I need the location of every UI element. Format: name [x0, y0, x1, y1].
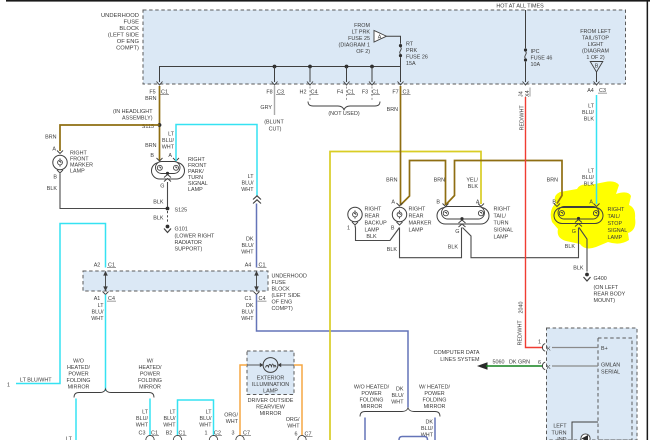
- svg-text:B+: B+: [601, 346, 608, 352]
- svg-text:LAMP: LAMP: [608, 235, 623, 241]
- svg-text:WHT: WHT: [163, 423, 176, 429]
- svg-text:F8: F8: [266, 90, 272, 96]
- svg-text:FOLDING: FOLDING: [360, 398, 384, 404]
- svg-text:TURN: TURN: [552, 431, 567, 437]
- wire BRN F7/C3 down to rear marker A: [400, 86, 402, 205]
- svg-text:CUT): CUT): [269, 127, 282, 133]
- svg-text:6: 6: [295, 432, 298, 438]
- svg-text:PRK: PRK: [406, 48, 417, 54]
- svg-text:REAR BODY: REAR BODY: [594, 292, 626, 298]
- svg-text:BLK: BLK: [387, 247, 398, 253]
- svg-text:TAIL/STOP: TAIL/STOP: [582, 36, 609, 42]
- svg-text:SUPPORT): SUPPORT): [175, 247, 203, 253]
- IPC FUSE 46 10A: [525, 10, 527, 48]
- svg-text:BLU/: BLU/: [421, 426, 433, 432]
- wire LT BLU/WHT band to brace: [105, 295, 107, 392]
- right rear backup lamp: [348, 207, 362, 221]
- svg-text:BRN: BRN: [45, 135, 56, 141]
- wire triangle A to fuse 26: [387, 36, 401, 44]
- svg-text:F4: F4: [337, 90, 343, 96]
- right rear marker lamp: [397, 203, 403, 206]
- svg-text:1 OF 2): 1 OF 2): [586, 55, 604, 61]
- svg-text:LAMP: LAMP: [263, 389, 278, 395]
- branch W/O heated (slate): [364, 418, 366, 440]
- svg-text:BLU/: BLU/: [200, 416, 212, 422]
- branch W/O heated: wire to bottom: [75, 399, 77, 440]
- svg-text:J4: J4: [519, 91, 525, 97]
- svg-text:B: B: [53, 175, 57, 181]
- svg-text:LT: LT: [206, 410, 213, 416]
- brace split DK BLU/WHT: [360, 408, 440, 417]
- svg-text:A: A: [589, 200, 593, 206]
- ground G400: [585, 273, 589, 277]
- svg-text:WHT: WHT: [241, 187, 254, 193]
- svg-text:BLK: BLK: [153, 216, 164, 222]
- svg-text:LT: LT: [248, 174, 255, 180]
- svg-text:WHT: WHT: [226, 419, 239, 425]
- svg-text:1: 1: [7, 383, 10, 389]
- underhood fuse block box (top): [143, 10, 626, 84]
- svg-text:BLK: BLK: [565, 244, 576, 250]
- svg-text:MIRROR: MIRROR: [424, 404, 446, 410]
- svg-text:A: A: [52, 147, 56, 153]
- svg-text:B: B: [150, 153, 154, 159]
- left turn indicator in module: [572, 422, 598, 440]
- svg-text:LT: LT: [588, 169, 595, 175]
- svg-text:TAIL/: TAIL/: [494, 214, 507, 220]
- svg-text:A: A: [168, 153, 172, 159]
- wire BLK tail/stop G to G400: [579, 228, 587, 272]
- wire BLK S125 to G101 (dashed): [167, 211, 169, 224]
- svg-text:WHT: WHT: [91, 316, 104, 322]
- wire GRY from F8/C3: [274, 86, 276, 115]
- wire RED/WHT from IPC fuse to B+: [526, 97, 544, 348]
- svg-text:FOLDING: FOLDING: [67, 378, 91, 384]
- svg-text:LT: LT: [168, 132, 175, 138]
- svg-text:FUSE: FUSE: [124, 20, 140, 26]
- svg-text:1: 1: [538, 340, 541, 346]
- svg-text:W/: W/: [147, 359, 154, 365]
- svg-text:REAR: REAR: [409, 214, 424, 220]
- svg-text:REARVIEW: REARVIEW: [256, 405, 286, 411]
- svg-text:WHT: WHT: [391, 400, 404, 406]
- svg-text:POWER: POWER: [424, 391, 444, 397]
- svg-text:UNDERHOOD: UNDERHOOD: [101, 13, 139, 19]
- wire BRN loop tail/turn B to tail/stop B: [446, 161, 563, 206]
- branch W/ heated (slate): [434, 418, 436, 440]
- underhood fuse block pass-through band: [83, 271, 268, 291]
- svg-text:ORG/: ORG/: [286, 417, 300, 423]
- svg-text:A2: A2: [94, 263, 101, 269]
- svg-text:RIGHT: RIGHT: [608, 207, 625, 213]
- svg-text:LT BLU/WHT: LT BLU/WHT: [20, 378, 52, 384]
- svg-text:K: K: [547, 347, 551, 353]
- svg-text:G400: G400: [594, 276, 607, 282]
- page right border: [647, 0, 649, 440]
- svg-text:G: G: [455, 229, 459, 235]
- off-page triangle A: [374, 31, 387, 43]
- fuse block bus bar: [160, 67, 401, 83]
- wire BLK tail/turn G right to tail/stop G: [463, 228, 579, 258]
- svg-text:RED/WHT: RED/WHT: [518, 320, 524, 346]
- svg-text:COMPT): COMPT): [116, 46, 139, 52]
- svg-text:BACKUP: BACKUP: [365, 221, 388, 227]
- svg-text:B: B: [552, 200, 556, 206]
- svg-text:WHT: WHT: [162, 145, 175, 151]
- svg-text:SERIAL: SERIAL: [601, 370, 620, 376]
- svg-text:A: A: [378, 34, 382, 40]
- pass-through arrows: [104, 272, 258, 290]
- svg-text:COMPT): COMPT): [272, 306, 293, 312]
- svg-text:LAMP: LAMP: [188, 187, 203, 193]
- svg-text:ORG/: ORG/: [224, 413, 238, 419]
- svg-text:BLU/: BLU/: [242, 181, 254, 187]
- svg-text:RIGHT: RIGHT: [365, 207, 382, 213]
- branch W/ heated: wire to connector C3/C1: [149, 399, 151, 436]
- svg-text:MIRROR: MIRROR: [361, 404, 383, 410]
- svg-text:YEL/: YEL/: [466, 178, 478, 184]
- mirror connector (cut off at bottom): [399, 437, 428, 440]
- svg-text:WHT: WHT: [241, 250, 254, 256]
- svg-text:OF 2): OF 2): [356, 49, 370, 55]
- svg-text:MARKER: MARKER: [409, 221, 432, 227]
- svg-text:DRIVER OUTSIDE: DRIVER OUTSIDE: [248, 398, 294, 404]
- svg-text:BLU/: BLU/: [582, 110, 594, 116]
- svg-text:W/O: W/O: [73, 359, 84, 365]
- svg-text:HEATED/: HEATED/: [139, 365, 162, 371]
- wire LT BLU/WHT park/turn A up and over: [176, 125, 257, 196]
- svg-text:(DIAGRAM: (DIAGRAM: [582, 49, 609, 55]
- wire DK GRN computer data line: [477, 362, 488, 369]
- svg-text:LT: LT: [98, 303, 105, 309]
- wire BLK marker B down and right to tail/turn G: [400, 228, 462, 258]
- svg-text:LAMP: LAMP: [494, 235, 509, 241]
- in-line connector break: [253, 196, 261, 200]
- svg-text:2040: 2040: [519, 302, 525, 314]
- svg-text:FUSE 46: FUSE 46: [531, 56, 553, 62]
- svg-text:MOUNT): MOUNT): [594, 298, 616, 304]
- wire ORG/WHT left: [240, 365, 247, 436]
- svg-text:MIRROR: MIRROR: [68, 385, 90, 391]
- svg-text:LT: LT: [588, 104, 595, 110]
- svg-text:LAMP: LAMP: [365, 228, 380, 234]
- svg-text:(IN HEADLIGHT: (IN HEADLIGHT: [113, 109, 153, 115]
- svg-text:FUSE 25: FUSE 25: [348, 36, 370, 42]
- svg-text:POWER: POWER: [361, 391, 381, 397]
- svg-text:POWER: POWER: [68, 372, 88, 378]
- svg-text:BLK: BLK: [366, 234, 377, 240]
- svg-text:EXTERIOR: EXTERIOR: [257, 376, 285, 382]
- svg-text:FROM: FROM: [354, 23, 370, 29]
- svg-text:DK: DK: [246, 303, 254, 309]
- svg-text:(NOT USED): (NOT USED): [328, 111, 360, 117]
- svg-text:BLU/: BLU/: [242, 310, 254, 316]
- svg-text:OF ENG: OF ENG: [272, 300, 293, 306]
- wire BLK backup to marker B: [355, 226, 400, 241]
- svg-text:GMLAN: GMLAN: [601, 363, 620, 369]
- svg-text:S125: S125: [175, 208, 188, 214]
- wire DK BLU/WHT band over to right and down: [257, 295, 409, 408]
- svg-text:W/ HEATED/: W/ HEATED/: [419, 385, 451, 391]
- svg-text:LT PRK: LT PRK: [352, 30, 371, 36]
- svg-text:BRN: BRN: [386, 178, 397, 184]
- svg-text:TAIL/: TAIL/: [608, 214, 621, 220]
- svg-text:REAR: REAR: [365, 214, 380, 220]
- svg-text:BRN: BRN: [387, 107, 398, 113]
- lamp symbol with arrows: [247, 364, 264, 366]
- svg-text:IPC: IPC: [531, 49, 540, 55]
- svg-text:BRN: BRN: [145, 143, 156, 149]
- jumper loop B2/C1 to 1/C2: [178, 400, 214, 436]
- svg-text:F7: F7: [392, 90, 398, 96]
- svg-text:W/O HEATED/: W/O HEATED/: [354, 385, 390, 391]
- exterior illumination lamp dashed box: [247, 351, 294, 395]
- svg-text:OF ENG: OF ENG: [117, 39, 140, 45]
- svg-text:DK: DK: [246, 237, 254, 243]
- svg-text:FOLDING: FOLDING: [423, 398, 447, 404]
- wire BRN branch to right front marker lamp: [60, 125, 160, 151]
- svg-text:B: B: [595, 64, 599, 70]
- svg-text:WHT: WHT: [241, 316, 254, 322]
- svg-text:RT: RT: [406, 42, 414, 48]
- svg-text:6: 6: [538, 360, 541, 366]
- svg-text:1: 1: [347, 226, 350, 232]
- svg-text:C1: C1: [245, 296, 252, 302]
- svg-text:BLU/: BLU/: [392, 393, 404, 399]
- yellow highlight over right tail/stop lamp: [551, 181, 636, 248]
- ground G101: [166, 225, 170, 229]
- off-page triangle B: [590, 62, 603, 73]
- svg-text:LT: LT: [66, 437, 73, 440]
- svg-text:DK: DK: [426, 420, 434, 426]
- svg-text:H2: H2: [300, 90, 307, 96]
- wire LT BLU/WHT off-page 1 up to A2/C1: [16, 224, 106, 384]
- wire YEL/BLK long vertical and over to tail/turn A: [330, 152, 481, 440]
- svg-text:BRN: BRN: [434, 178, 445, 184]
- svg-text:WHT: WHT: [136, 423, 149, 429]
- svg-text:RIGHT: RIGHT: [409, 207, 426, 213]
- svg-text:B2: B2: [166, 431, 173, 437]
- svg-text:3: 3: [232, 431, 235, 437]
- svg-text:BLU/: BLU/: [242, 243, 254, 249]
- svg-text:G101: G101: [175, 227, 188, 233]
- wire BLK park/turn G to S125: [167, 182, 169, 209]
- bus junction dots: [273, 65, 277, 69]
- svg-text:LT: LT: [170, 410, 177, 416]
- svg-text:RADIATOR: RADIATOR: [175, 240, 202, 246]
- svg-text:BLK: BLK: [47, 186, 58, 192]
- svg-text:A4: A4: [245, 263, 252, 269]
- svg-text:(DIAGRAM 1: (DIAGRAM 1: [339, 43, 370, 49]
- wire BLK marker lamp to S125: [60, 174, 168, 209]
- splice S115: [158, 123, 162, 127]
- svg-text:1: 1: [205, 431, 208, 437]
- svg-text:BLU/: BLU/: [136, 416, 148, 422]
- svg-text:LEFT: LEFT: [553, 424, 567, 430]
- svg-text:HEATED/: HEATED/: [67, 365, 90, 371]
- svg-text:LT: LT: [142, 410, 149, 416]
- svg-text:STOP: STOP: [608, 221, 623, 227]
- svg-text:FOLDING: FOLDING: [138, 378, 162, 384]
- svg-text:TURN: TURN: [494, 221, 509, 227]
- svg-text:SIGNAL: SIGNAL: [494, 228, 514, 234]
- svg-text:(LOWER RIGHT: (LOWER RIGHT: [175, 234, 216, 240]
- big box bottom right (left rear body module): [547, 328, 638, 440]
- svg-text:WHT: WHT: [287, 424, 300, 430]
- svg-text:15A: 15A: [406, 61, 416, 67]
- svg-text:G: G: [160, 184, 164, 190]
- bus drops F8 H2 F4 F3: [274, 67, 276, 83]
- svg-text:K: K: [547, 365, 551, 371]
- svg-text:RED/WHT: RED/WHT: [520, 105, 526, 131]
- svg-text:BLU/: BLU/: [162, 138, 174, 144]
- svg-text:LIGHT: LIGHT: [588, 42, 605, 48]
- wire BRN loop marker A to tail/turn B: [401, 161, 446, 206]
- svg-text:RIGHT: RIGHT: [494, 207, 511, 213]
- svg-text:MIRROR: MIRROR: [139, 385, 161, 391]
- svg-text:BLK: BLK: [448, 245, 459, 251]
- svg-text:(LEFT SIDE: (LEFT SIDE: [108, 33, 139, 39]
- svg-text:(BLUNT: (BLUNT: [264, 120, 284, 126]
- svg-text:UNDERHOOD: UNDERHOOD: [272, 274, 307, 280]
- svg-text:C3: C3: [139, 431, 146, 437]
- svg-text:ILLUMINATION: ILLUMINATION: [252, 382, 289, 388]
- svg-text:A: A: [391, 200, 395, 206]
- svg-text:FUSE 26: FUSE 26: [406, 55, 428, 61]
- svg-text:B: B: [391, 226, 395, 232]
- svg-text:BLK: BLK: [468, 184, 479, 190]
- svg-text:BLK: BLK: [153, 200, 164, 206]
- not used dashed stubs: [310, 87, 372, 101]
- page top border: [6, 0, 650, 2]
- svg-text:HOT AT ALL TIMES: HOT AT ALL TIMES: [496, 4, 544, 10]
- svg-text:B: B: [436, 200, 440, 206]
- svg-text:BRN: BRN: [145, 96, 156, 102]
- brace split LT BLU/WHT: [74, 389, 154, 398]
- svg-text:5060: 5060: [493, 360, 505, 366]
- svg-text:MIRROR: MIRROR: [260, 411, 282, 417]
- svg-text:BLU/: BLU/: [164, 416, 176, 422]
- exit chevrons under band: [103, 292, 109, 295]
- svg-text:BLOCK: BLOCK: [119, 26, 139, 32]
- svg-text:BLK: BLK: [584, 182, 595, 188]
- svg-text:A1: A1: [94, 296, 101, 302]
- svg-text:BLK: BLK: [584, 117, 595, 123]
- svg-text:BLOCK: BLOCK: [272, 287, 291, 293]
- svg-text:(ON LEFT: (ON LEFT: [594, 285, 619, 291]
- svg-text:10A: 10A: [531, 62, 541, 68]
- svg-text:POWER: POWER: [140, 372, 160, 378]
- svg-text:LINES SYSTEM: LINES SYSTEM: [440, 357, 480, 363]
- wire BRN from F5/C1 down: [159, 86, 161, 161]
- brace (NOT USED): [308, 102, 380, 110]
- wire DK BLU/WHT down to A4/C1: [256, 204, 258, 268]
- svg-text:BLU/: BLU/: [92, 310, 104, 316]
- splice S125: [166, 207, 170, 211]
- svg-text:ASSEMBLY): ASSEMBLY): [122, 116, 153, 122]
- svg-text:FROM LEFT: FROM LEFT: [580, 29, 611, 35]
- wire ORG/WHT right: [294, 365, 302, 436]
- svg-text:GRY: GRY: [260, 105, 272, 111]
- svg-text:G: G: [572, 229, 576, 235]
- svg-text:(LEFT SIDE: (LEFT SIDE: [272, 293, 301, 299]
- svg-text:SIGNAL: SIGNAL: [608, 228, 628, 234]
- svg-text:BRN: BRN: [547, 178, 558, 184]
- svg-text:LAMP: LAMP: [409, 228, 424, 234]
- svg-text:DK GRN: DK GRN: [509, 360, 530, 366]
- svg-text:BLU/: BLU/: [582, 175, 594, 181]
- svg-text:FUSE: FUSE: [272, 280, 287, 286]
- svg-text:WHT: WHT: [199, 423, 212, 429]
- fuse RT PRK FUSE 26 15A: [399, 44, 402, 47]
- exit arrows at box bottom: [157, 82, 600, 86]
- svg-text:BLK: BLK: [573, 266, 584, 272]
- svg-text:A4: A4: [587, 88, 594, 94]
- svg-text:F5: F5: [149, 90, 155, 96]
- svg-text:DK: DK: [396, 387, 404, 393]
- inner dashed module box: [598, 338, 632, 440]
- svg-text:F3: F3: [362, 90, 368, 96]
- wire LT BLU/BLK from A4/C3 to tail/stop A: [596, 95, 598, 204]
- svg-text:COMPUTER DATA: COMPUTER DATA: [434, 350, 480, 356]
- svg-text:LAMP: LAMP: [70, 169, 85, 175]
